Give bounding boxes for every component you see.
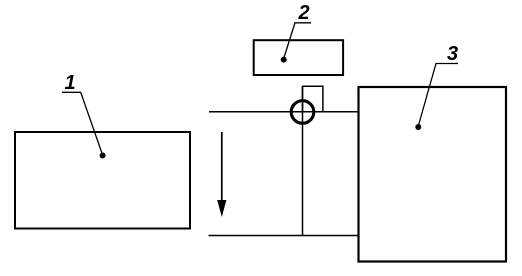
label 2 leader bbox=[284, 23, 311, 59]
svg-text:2: 2 bbox=[297, 2, 309, 24]
bottom pipe wire bbox=[209, 235, 359, 237]
svg-text:3: 3 bbox=[447, 43, 458, 65]
valve circle bbox=[291, 101, 314, 124]
block 1 (left rectangle) bbox=[15, 132, 190, 229]
top pipe wire bbox=[209, 111, 359, 113]
label 3 leader bbox=[418, 64, 458, 127]
valve stem wire (vertical through circle down to bottom pipe) bbox=[302, 86, 304, 235]
svg-text:1: 1 bbox=[64, 72, 75, 94]
flow arrow bbox=[221, 132, 223, 202]
label 2 dot bbox=[281, 57, 287, 63]
label 3 dot bbox=[415, 124, 421, 130]
block 2 (top small rectangle) bbox=[254, 40, 343, 75]
block 3 (right large rectangle) bbox=[359, 87, 507, 262]
label 1 dot bbox=[100, 153, 106, 159]
label 1 leader bbox=[62, 92, 103, 155]
valve actuator box bbox=[303, 86, 323, 112]
